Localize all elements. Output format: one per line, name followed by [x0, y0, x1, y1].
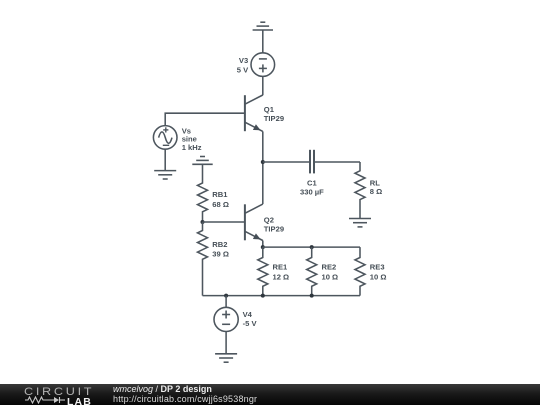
svg-text:RB1: RB1: [212, 190, 228, 199]
svg-text:RE3: RE3: [370, 263, 385, 272]
CircuitLab logo: [22, 385, 97, 405]
wire bottom rail: [203, 295, 361, 297]
wire C1 to RL: [314, 161, 360, 163]
resistor RL: [355, 162, 365, 219]
svg-text:C1: C1: [307, 178, 317, 187]
svg-text:RE2: RE2: [322, 263, 337, 272]
label Q1 TIP29: [264, 105, 284, 123]
svg-text:Q1: Q1: [264, 105, 275, 114]
wire V3 to Q1 collector: [262, 76, 264, 95]
svg-text:330 µF: 330 µF: [300, 187, 324, 196]
label RE3 10 Ω: [370, 263, 387, 282]
label V3 5 V: [237, 56, 249, 74]
svg-text:39 Ω: 39 Ω: [212, 249, 229, 258]
svg-text:V4: V4: [243, 310, 253, 319]
credit text: [113, 384, 257, 404]
node junction RE2 bottom: [310, 294, 314, 298]
label RB2 39 Ω: [212, 240, 229, 259]
footer bar: [0, 384, 540, 405]
label RE2 10 Ω: [322, 263, 339, 282]
wire Q1 emitter vertical to Q2 collector: [262, 131, 264, 204]
node junction V4 tap: [224, 294, 228, 298]
svg-text:1 kHz: 1 kHz: [182, 143, 202, 152]
ground GND-V4: [215, 354, 237, 362]
wire Vs to Q1 base: [165, 113, 245, 125]
ground GND-top (inverted, above V3): [253, 22, 273, 30]
transistor Q2: [245, 204, 263, 240]
transistor Q1: [245, 95, 263, 131]
svg-text:TIP29: TIP29: [264, 224, 284, 233]
wire node to Q2 base: [203, 221, 245, 223]
label Q2 TIP29: [264, 215, 284, 233]
wire Q2 emitter stub: [262, 241, 264, 248]
node junction RE2 top: [310, 245, 314, 249]
voltage source V3: [251, 53, 275, 77]
wire Vs to ground: [164, 149, 166, 170]
svg-text:10 Ω: 10 Ω: [322, 272, 339, 281]
svg-text:RB2: RB2: [212, 240, 227, 249]
svg-text:TIP29: TIP29: [264, 114, 284, 123]
node junction emitter/RE1: [261, 245, 265, 249]
voltage source V4: [214, 307, 238, 331]
resistor RE3: [355, 247, 365, 296]
wire top ground to V3: [262, 30, 264, 53]
resistor RE2: [307, 247, 317, 296]
svg-text:8 Ω: 8 Ω: [370, 187, 382, 196]
node junction C1 tap: [261, 160, 265, 164]
node junction RE1 bottom: [261, 294, 265, 298]
svg-text:10 Ω: 10 Ω: [370, 272, 387, 281]
svg-text:Q2: Q2: [264, 215, 274, 224]
node junction RB1/RB2/base: [201, 220, 205, 224]
ground GND-RB1 (inverted, above RB1): [192, 157, 212, 165]
label V4 -5 V: [243, 310, 258, 328]
label RL 8 Ω: [370, 178, 382, 196]
svg-text:12 Ω: 12 Ω: [273, 272, 290, 281]
label C1 330 µF: [300, 178, 324, 196]
wire node to C1: [263, 161, 310, 163]
label RE1 12 Ω: [273, 263, 290, 282]
resistor RB2: [198, 222, 208, 296]
label Vs sine 1 kHz: [182, 126, 202, 152]
resistor RB1: [198, 164, 208, 222]
wire V4 to ground: [225, 331, 227, 354]
svg-text:5 V: 5 V: [237, 65, 249, 74]
wire rail to V4: [225, 296, 227, 308]
logo resistor-diode glyph: [25, 396, 70, 404]
svg-text:-5 V: -5 V: [243, 319, 258, 328]
wire RE top rail: [263, 246, 360, 248]
svg-text:RE1: RE1: [273, 263, 289, 272]
label RB1 68 Ω: [212, 190, 229, 209]
svg-text:V3: V3: [239, 56, 248, 65]
voltage source Vs (sine): [153, 126, 177, 150]
capacitor C1: [310, 150, 314, 174]
ground GND-RL: [349, 219, 371, 227]
svg-text:68 Ω: 68 Ω: [212, 200, 229, 209]
svg-text:RL: RL: [370, 178, 380, 187]
resistor RE1: [258, 247, 268, 296]
ground GND-Vs: [154, 171, 176, 179]
